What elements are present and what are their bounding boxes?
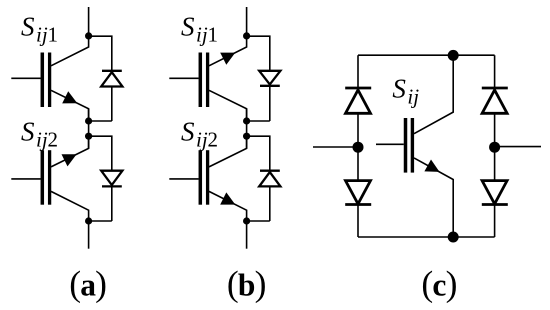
svg-text:1: 1: [48, 23, 59, 47]
IGBT S_ij1 gate lead: [11, 77, 40, 79]
IGBT S_ij2 collector lead: [51, 191, 89, 221]
label S_ij1 of (b): [181, 11, 218, 46]
wire middle-upper node to diode D1 bottom: [89, 120, 112, 122]
wire left branch of (c): [357, 55, 359, 237]
IGBT S_ij2 gate lead: [11, 178, 40, 180]
IGBT S_ij1 collector lead: [51, 36, 89, 66]
svg-text:S: S: [181, 116, 195, 146]
node top of (c): [448, 50, 459, 61]
diode D7 top-right of (c), conducting up: [482, 88, 508, 113]
svg-text:S: S: [21, 11, 35, 41]
wire bottom node to diode D4 bottom: [247, 220, 270, 222]
wire bottom node to diode D2 bottom: [89, 220, 112, 222]
diode D6 bottom-left of (c), conducting down: [345, 181, 371, 205]
node bottom of (c): [448, 232, 459, 243]
diode D4 of (b), conducting up: [259, 171, 280, 187]
IGBT S_ij1 of (b) emitter lead: [209, 36, 247, 66]
IGBT S_ij2 of (b) emitter arrow: [220, 192, 235, 204]
wire between middle nodes of (b): [246, 109, 248, 149]
IGBT S_ij body bar: [411, 118, 414, 173]
wire bottom terminal of (a): [88, 221, 90, 249]
IGBT S_ij1 of (b) emitter arrow: [220, 53, 235, 65]
node top of (a): [85, 32, 92, 39]
IGBT S_ij1 of (b) gate bar: [199, 53, 203, 108]
node middle-lower of (b): [243, 133, 250, 140]
label S_ij2 of (b): [181, 116, 218, 151]
wire right branch of (c): [494, 55, 496, 237]
wire middle-upper node to diode D3 bottom: [247, 120, 270, 122]
svg-text:ij: ij: [196, 128, 208, 152]
diode D5 top-left of (c), conducting up: [345, 88, 371, 113]
IGBT S_ij2 of (b) body bar: [206, 150, 209, 205]
label S_ij2 of (a): [21, 116, 58, 151]
svg-text:ij: ij: [407, 84, 419, 108]
wire right terminal of (c): [495, 146, 541, 148]
IGBT S_ij gate lead: [376, 143, 404, 145]
IGBT S_ij2 of (b) gate bar: [199, 150, 203, 205]
node left of (c): [353, 142, 364, 153]
IGBT S_ij2 of (b) collector lead: [209, 136, 247, 167]
wire bottom terminal of (b): [246, 221, 248, 249]
IGBT S_ij1 of (b) body bar: [206, 53, 209, 108]
svg-text:ij: ij: [36, 23, 48, 47]
IGBT S_ij gate bar: [404, 118, 408, 173]
wire left terminal of (c): [313, 146, 358, 148]
svg-text:ij: ij: [196, 23, 208, 47]
node middle-lower of (a): [85, 133, 92, 140]
diode D1 of (a), conducting up: [101, 71, 122, 87]
node middle-upper of (b): [243, 117, 250, 124]
wire middle-lower node to diode D2 top: [89, 136, 112, 221]
svg-text:ij: ij: [36, 128, 48, 152]
node right of (c): [489, 142, 500, 153]
svg-text:S: S: [21, 116, 35, 146]
IGBT S_ij2 body bar: [48, 150, 51, 205]
wire between middle nodes of (a): [88, 109, 90, 149]
svg-text:2: 2: [48, 128, 59, 152]
wire top terminal of (a): [88, 7, 90, 36]
wire node to diode D1 top: [89, 36, 112, 121]
svg-text:(b): (b): [227, 264, 266, 304]
wire top rail of (c): [358, 54, 495, 56]
diode D3 of (b), conducting down: [259, 71, 280, 86]
diode D8 bottom-right of (c), conducting down: [482, 181, 508, 205]
wire middle-lower node to diode D4 top: [247, 136, 270, 221]
wire top terminal of (b): [246, 7, 248, 36]
IGBT S_ij1 body bar: [48, 53, 51, 108]
diode D2 of (a), conducting down: [101, 171, 122, 187]
svg-text:1: 1: [208, 23, 219, 47]
label S_ij1 of (a): [21, 11, 58, 46]
IGBT S_ij2 gate bar: [41, 150, 45, 205]
IGBT S_ij2 emitter lead: [51, 136, 89, 167]
svg-text:(a): (a): [69, 264, 106, 304]
node bottom of (b): [243, 217, 250, 224]
IGBT S_ij emitter arrow: [424, 160, 439, 172]
wire bottom rail of (c): [358, 236, 495, 238]
IGBT S_ij1 of (b) gate lead: [169, 77, 198, 79]
IGBT S_ij2 of (b) emitter lead: [209, 191, 247, 221]
IGBT S_ij emitter lead: [414, 158, 453, 237]
label S_ij of (c): [392, 73, 419, 108]
IGBT S_ij collector lead: [414, 55, 453, 134]
IGBT S_ij1 gate bar: [41, 53, 45, 108]
svg-text:S: S: [181, 11, 195, 41]
node bottom of (a): [85, 217, 92, 224]
IGBT S_ij2 emitter arrow: [62, 154, 77, 166]
IGBT S_ij1 emitter arrow: [62, 91, 77, 103]
IGBT S_ij1 emitter lead: [51, 90, 89, 121]
svg-text:S: S: [392, 73, 406, 103]
node top of (b): [243, 32, 250, 39]
IGBT S_ij1 of (b) collector lead: [209, 90, 247, 121]
IGBT S_ij2 of (b) gate lead: [169, 178, 198, 180]
svg-text:(c): (c): [421, 264, 456, 304]
wire node to diode D3 top: [247, 36, 270, 121]
svg-text:2: 2: [208, 128, 219, 152]
node middle-upper of (a): [85, 117, 92, 124]
